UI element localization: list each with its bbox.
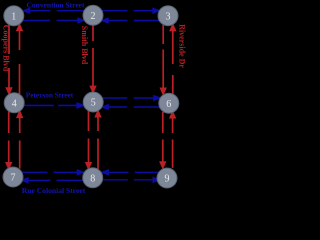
svg-text:6: 6: [166, 99, 171, 110]
node 4: [4, 93, 24, 113]
edge 4->1 Coopers Blvd northbound: [17, 25, 22, 94]
svg-text:9: 9: [165, 174, 170, 185]
edge 8->5 Smith Blvd northbound: [96, 111, 101, 169]
svg-text:Smith Blvd: Smith Blvd: [80, 26, 89, 65]
edge 1->4 Coopers Blvd southbound: [7, 25, 12, 94]
node 2: [83, 5, 103, 25]
svg-text:7: 7: [11, 173, 16, 184]
edge 5->6 middle street eastbound: [102, 96, 160, 101]
svg-text:Rue Colonial Street: Rue Colonial Street: [22, 186, 86, 194]
node 9: [157, 168, 177, 188]
edge 8->9 Rue Colonial eastbound: [102, 178, 159, 183]
edge 5->8 Smith Blvd southbound: [86, 111, 91, 168]
svg-text:Convention Street: Convention Street: [27, 1, 85, 10]
svg-text:Riverside Dr: Riverside Dr: [178, 24, 187, 68]
edge 8->7 Rue Colonial westbound: [22, 178, 84, 183]
node 3: [158, 6, 178, 26]
svg-text:2: 2: [91, 11, 96, 22]
svg-text:4: 4: [12, 98, 17, 109]
edge 7->4 Coopers Blvd northbound: [17, 112, 22, 169]
svg-text:Coopers Blvd: Coopers Blvd: [2, 25, 11, 72]
svg-text:5: 5: [91, 98, 96, 109]
node 8: [83, 168, 103, 188]
edge 2->1 Convention Street westbound: [23, 8, 84, 13]
svg-text:3: 3: [166, 11, 171, 22]
node 5: [83, 92, 103, 112]
edge 3->2 Convention Street westbound: [102, 18, 160, 23]
edge 4->5 Peterson Street one-way eastbound: [24, 103, 83, 108]
edge 9->6 Riverside Dr northbound: [170, 112, 175, 168]
svg-text:8: 8: [90, 173, 95, 184]
edge 9->8 Rue Colonial westbound: [102, 170, 160, 175]
edge 3->6 Riverside Dr southbound: [161, 25, 166, 94]
edge 6->5 middle street westbound: [102, 105, 160, 110]
node 7: [3, 167, 23, 187]
edge 6->3 Riverside Dr northbound: [170, 25, 175, 94]
edge 2->3 Convention Street eastbound: [102, 8, 160, 13]
svg-text:1: 1: [11, 11, 16, 22]
edge 7->8 Rue Colonial eastbound: [22, 170, 84, 175]
edge 1->2 Convention Street eastbound: [23, 18, 85, 23]
node 6: [159, 93, 179, 113]
edge 6->9 Riverside Dr southbound: [160, 112, 165, 168]
edge 2->5 Smith Blvd one-way southbound: [91, 25, 96, 92]
edge 4->7 Coopers Blvd southbound: [6, 112, 11, 169]
node 1: [4, 6, 24, 26]
svg-text:Peterson Street: Peterson Street: [26, 91, 74, 100]
